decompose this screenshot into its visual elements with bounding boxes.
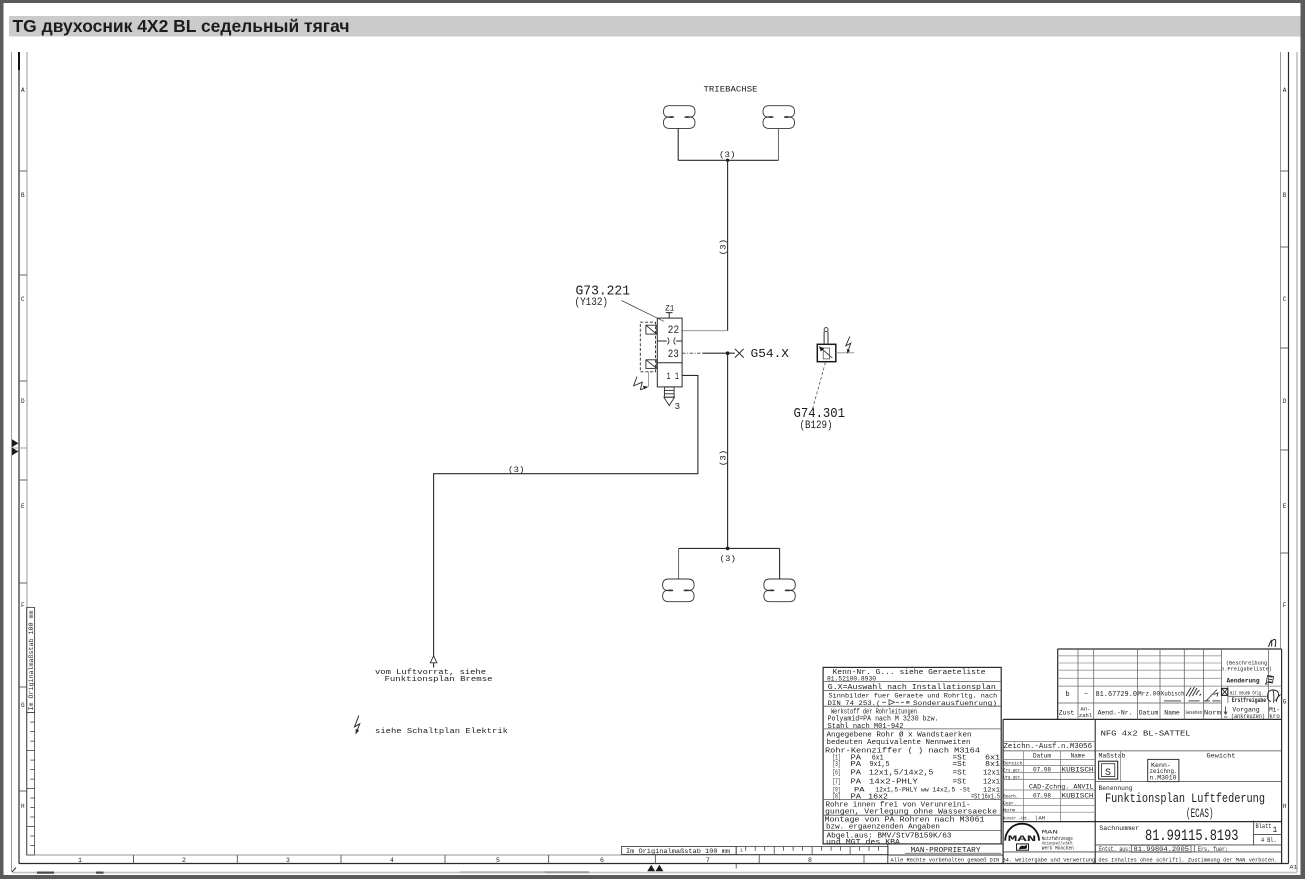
svg-text:D: D	[1283, 398, 1287, 405]
svg-text:b: b	[1065, 691, 1069, 699]
leader line G73.221	[622, 301, 664, 322]
svg-text:[9]: [9]	[833, 786, 841, 793]
svg-text:Im Originalmaßstab 100 mm: Im Originalmaßstab 100 mm	[28, 611, 36, 711]
svg-text:n.M3010: n.M3010	[1150, 775, 1177, 782]
svg-text:Gepr.: Gepr.	[1003, 800, 1016, 806]
svg-text:A1: A1	[1290, 865, 1298, 871]
svg-text:4 Bl.: 4 Bl.	[1261, 837, 1277, 844]
svg-text:Zeichn.-Ausf.n.M3056: Zeichn.-Ausf.n.M3056	[1004, 743, 1093, 751]
svg-text:Erstfreigabe: Erstfreigabe	[1232, 697, 1267, 704]
svg-text:Angegebene Rohr Ø x Wandstaerk: Angegebene Rohr Ø x Wandstaerken	[827, 730, 972, 739]
svg-text:(ankreuzen): (ankreuzen)	[1231, 713, 1265, 720]
svg-text:4: 4	[390, 857, 394, 864]
svg-text:Funktionsplan Bremse: Funktionsplan Bremse	[385, 676, 493, 684]
svg-text:Werk München: Werk München	[1042, 845, 1074, 852]
svg-text:G: G	[1283, 699, 1287, 706]
svg-text:1 1: 1 1	[667, 372, 680, 383]
svg-text:8: 8	[808, 857, 812, 864]
svg-text:Gewicht: Gewicht	[1207, 753, 1236, 760]
svg-text:Stahl nach M01-942: Stahl nach M01-942	[828, 723, 904, 731]
svg-text:MAN: MAN	[1008, 835, 1037, 844]
svg-text:KUBISCH: KUBISCH	[1062, 766, 1094, 773]
svg-text:12x1: 12x1	[983, 786, 1000, 793]
sensor G74.301 body	[817, 344, 836, 361]
svg-text:=St: =St	[953, 769, 967, 777]
svg-text:(ECAS): (ECAS)	[1186, 806, 1214, 821]
svg-text:8x1: 8x1	[985, 761, 1000, 769]
svg-text:12x1,5-PHLY ww 14x2,5: 12x1,5-PHLY ww 14x2,5	[875, 786, 955, 793]
svg-text:Funktionsplan Luftfederung: Funktionsplan Luftfederung	[1105, 791, 1265, 806]
svg-text:kro: kro	[1269, 713, 1280, 720]
wire to lower left bellow	[678, 548, 680, 579]
air bellow drive axle right	[763, 106, 795, 129]
svg-text:PA: PA	[851, 761, 862, 769]
svg-text:S: S	[1105, 768, 1111, 779]
svg-text:16x1,5: 16x1,5	[982, 794, 1001, 802]
svg-text:Ers.gez.: Ers.gez.	[1003, 767, 1022, 773]
svg-text:Zust: Zust	[1059, 710, 1075, 717]
svg-text:Datum: Datum	[1139, 710, 1159, 717]
sensor pin	[824, 332, 828, 345]
electric line symbol at valve	[634, 377, 648, 390]
svg-text:Im Originalmaßstab 100 mm: Im Originalmaßstab 100 mm	[626, 848, 730, 856]
left mini table	[1003, 751, 1095, 822]
svg-text:B: B	[21, 192, 25, 199]
svg-text:07.98: 07.98	[1033, 793, 1051, 800]
svg-text:PA: PA	[851, 794, 862, 802]
sensor arrow	[821, 348, 832, 358]
svg-text:C: C	[21, 296, 25, 303]
svg-text:H: H	[21, 803, 25, 810]
svg-text:n.Freigabeliste): n.Freigabeliste)	[1221, 667, 1272, 673]
svg-text:G: G	[21, 702, 25, 709]
solenoid pilot dashed box	[640, 322, 655, 372]
wire from left bellow	[677, 128, 679, 160]
svg-text:E: E	[21, 503, 25, 510]
wire solenoid lead	[647, 372, 649, 387]
pencil icon	[1266, 676, 1274, 685]
svg-text:PA: PA	[851, 779, 862, 787]
wire port 11 supply	[434, 375, 698, 667]
svg-text:Blatt: Blatt	[1256, 823, 1272, 830]
solenoid coil upper	[646, 325, 657, 334]
svg-text:Z1: Z1	[665, 304, 674, 313]
svg-text:TG двухосник 4X2 BL седельный: TG двухосник 4X2 BL седельный тягач	[13, 16, 350, 36]
svg-text:[3]: [3]	[833, 761, 841, 769]
svg-text:(3): (3)	[508, 465, 525, 475]
svg-text:NFG 4x2 BL-SATTEL: NFG 4x2 BL-SATTEL	[1101, 730, 1192, 738]
svg-text:12x1: 12x1	[983, 779, 1000, 787]
svg-text:81.67729.0: 81.67729.0	[1096, 691, 1138, 699]
svg-text:(Y132): (Y132)	[575, 297, 609, 309]
svg-text:Datum: Datum	[1033, 753, 1051, 760]
solenoid coil lower	[646, 360, 657, 369]
svg-text:[8]: [8]	[833, 794, 841, 802]
svg-text:E: E	[1283, 503, 1287, 510]
svg-text:=St: =St	[971, 794, 981, 802]
MAN proprietary box	[888, 844, 1003, 864]
svg-text:G.X=Auswahl nach Installations: G.X=Auswahl nach Installationsplan	[828, 684, 996, 692]
svg-text:Bearb.: Bearb.	[1003, 793, 1018, 799]
signature underlines	[1164, 700, 1221, 702]
svg-text:G54.X: G54.X	[751, 347, 790, 361]
svg-text:–: –	[1084, 690, 1088, 698]
svg-text:A: A	[1283, 87, 1287, 94]
svg-text:B: B	[1283, 192, 1287, 199]
svg-text:|AH: |AH	[1035, 815, 1045, 822]
svg-text:5: 5	[496, 857, 500, 864]
svg-text:F: F	[21, 602, 25, 609]
svg-text:TRIEBACHSE: TRIEBACHSE	[704, 86, 758, 95]
svg-text:MAN-PROPRIETARY: MAN-PROPRIETARY	[911, 847, 982, 855]
svg-text:bzw. ergaenzenden Angaben: bzw. ergaenzenden Angaben	[826, 824, 940, 832]
svg-text:(B129): (B129)	[800, 420, 833, 432]
svg-text:(3): (3)	[718, 239, 728, 256]
svg-text:Alle Rechte vorbehalten gemaeß: Alle Rechte vorbehalten gemaeß DIN 34. W…	[891, 856, 1278, 863]
silencer port 3	[664, 387, 675, 406]
electric line symbol at sensor	[846, 337, 851, 352]
air bellow lower right	[764, 579, 796, 602]
svg-text:12x1: 12x1	[983, 769, 1000, 777]
svg-text:16x2: 16x2	[868, 794, 888, 802]
wire port 22	[682, 330, 728, 332]
check slash	[1206, 690, 1219, 702]
svg-text:22: 22	[668, 325, 679, 337]
svg-text:9x1,5: 9x1,5	[870, 761, 890, 769]
wire junction to port 22	[727, 160, 729, 330]
sensor electric lead	[836, 352, 854, 354]
wire port 23 test line	[682, 352, 703, 354]
svg-text:Konstr.-Abt.: Konstr.-Abt.	[1003, 816, 1029, 822]
svg-text:Sonderausfuehrung): Sonderausfuehrung)	[913, 700, 997, 707]
svg-text:Sachnummer: Sachnummer	[1099, 825, 1139, 832]
leader line G74.301 dashed	[813, 363, 826, 410]
svg-text:F: F	[1283, 602, 1287, 609]
svg-text:H: H	[1283, 803, 1287, 810]
svg-text:Aend.-Nr.: Aend.-Nr.	[1097, 710, 1132, 717]
svg-text:14x2-PHLY: 14x2-PHLY	[869, 779, 919, 787]
svg-text:Bereich: Bereich	[1003, 760, 1022, 766]
node G54 junction	[726, 351, 730, 355]
wire to lower right bellow	[779, 548, 781, 579]
svg-text:A: A	[21, 87, 25, 94]
svg-text:Gesehen: Gesehen	[1186, 709, 1203, 716]
svg-text:=St: =St	[953, 779, 967, 787]
svg-text:81.99115.8193: 81.99115.8193	[1145, 827, 1239, 845]
svg-text:PA: PA	[851, 769, 862, 777]
svg-text:23: 23	[668, 349, 679, 361]
svg-text:C: C	[1283, 296, 1287, 303]
svg-text:Name: Name	[1164, 710, 1180, 717]
svg-text:12x1,5/14x2,5: 12x1,5/14x2,5	[869, 769, 934, 777]
valve throttle symbol	[668, 338, 676, 345]
svg-text:7: 7	[706, 857, 710, 864]
svg-text:[6]: [6]	[833, 769, 841, 777]
wire junction down	[727, 353, 729, 548]
air bellow lower left	[663, 579, 695, 602]
svg-text:mit neuem Orig.: mit neuem Orig.	[1230, 691, 1264, 697]
title block outline	[1003, 649, 1282, 864]
svg-text:=St: =St	[953, 761, 967, 769]
wire top axle manifold	[678, 159, 778, 161]
svg-text:Name: Name	[1071, 753, 1086, 760]
svg-text:1: 1	[740, 848, 743, 854]
svg-text:bedeuten Aequivalente Nennweit: bedeuten Aequivalente Nennweiten	[827, 739, 971, 747]
svg-text:(3): (3)	[719, 150, 736, 160]
svg-text:D: D	[21, 398, 25, 405]
air bellow drive axle left	[664, 106, 696, 129]
svg-text:Aenderung: Aenderung	[1227, 678, 1260, 685]
handwritten mark top right	[1269, 639, 1276, 647]
svg-text:-St: -St	[959, 786, 971, 793]
svg-text:siehe Schaltplan Elektrik: siehe Schaltplan Elektrik	[375, 728, 509, 736]
svg-text:zahl: zahl	[1079, 712, 1092, 719]
svg-text:Maßstab: Maßstab	[1099, 753, 1126, 760]
port 21 vent symbol	[666, 313, 673, 319]
svg-text:(3): (3)	[720, 554, 737, 564]
svg-text:2: 2	[182, 857, 186, 864]
blatt box	[1095, 820, 1281, 863]
test coupling X symbol	[735, 349, 744, 358]
node top axle junction	[726, 159, 729, 162]
svg-text:[7]: [7]	[833, 779, 841, 787]
handwritten circle signature	[1267, 690, 1280, 703]
svg-text:Norm: Norm	[1003, 807, 1015, 813]
svg-text:3: 3	[286, 857, 290, 864]
valve G73.221 body	[657, 318, 682, 387]
svg-text:6: 6	[600, 857, 604, 864]
svg-text:3: 3	[675, 402, 680, 412]
wire from right bellow	[777, 128, 779, 160]
svg-text:Sinnbilder fuer Geraete und Ro: Sinnbilder fuer Geraete und Rohrltg. nac…	[829, 693, 998, 700]
X checkbox	[1222, 688, 1228, 695]
wire lower axle manifold	[679, 547, 780, 549]
svg-text:(3): (3)	[718, 450, 728, 467]
svg-text:und MGT des KBA: und MGT des KBA	[826, 839, 901, 847]
svg-text:Mrz.00: Mrz.00	[1138, 691, 1160, 698]
svg-text:Norm: Norm	[1204, 710, 1221, 717]
svg-text:DIN 74 253.(: DIN 74 253.(	[828, 700, 881, 707]
node lower axle junction	[726, 547, 730, 551]
electric line symbol elektrik	[355, 716, 360, 734]
svg-text:CAD-Zchng. ANVIL: CAD-Zchng. ANVIL	[1029, 783, 1094, 790]
notes box	[823, 667, 1001, 844]
svg-text:Kubisch: Kubisch	[1161, 691, 1185, 698]
supply direction arrow	[430, 656, 437, 663]
svg-text:07.98: 07.98	[1033, 766, 1051, 773]
MAN logo	[1005, 824, 1039, 841]
svg-text:KUBISCH: KUBISCH	[1062, 793, 1094, 800]
svg-text:81.52100.8930: 81.52100.8930	[827, 676, 876, 683]
svg-text:Urg.gez.: Urg.gez.	[1003, 774, 1022, 780]
revision table	[1058, 649, 1282, 719]
svg-text:PA: PA	[854, 786, 865, 793]
svg-text:1: 1	[78, 857, 82, 864]
signature scribble	[1186, 687, 1201, 697]
svg-text:1: 1	[1273, 826, 1278, 835]
